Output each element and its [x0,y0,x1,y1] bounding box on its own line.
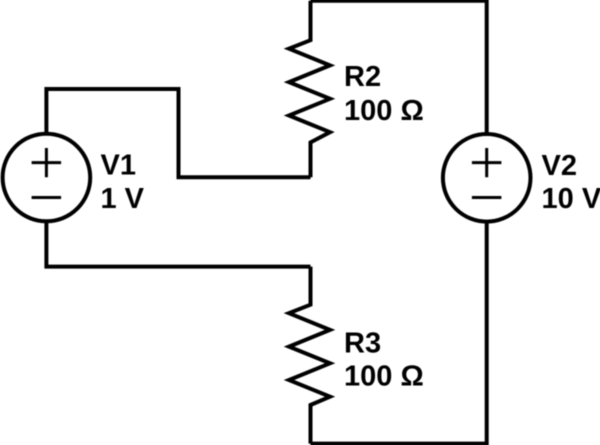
wire top net: R2 top to V2 top [311,1,487,136]
svg-text:V1: V1 [101,150,136,182]
wire bottom net: R3 bottom to V2 bottom [311,222,487,444]
svg-text:100 Ω: 100 Ω [344,360,424,392]
V1 minus sign [32,196,61,199]
svg-text:100 Ω: 100 Ω [344,95,424,127]
V2 plus sign [472,148,502,177]
voltage source V1 [3,134,91,222]
wire V1.+ to R2 bottom [46,89,310,177]
resistor R3 [289,267,330,444]
resistor R2 [289,1,330,177]
svg-text:R2: R2 [344,61,381,93]
svg-text:V2: V2 [542,150,577,182]
V2 minus sign [472,196,502,199]
svg-text:10 V: 10 V [542,183,600,215]
V1 plus sign [32,148,61,177]
wire V1.- to R3 top [46,222,310,267]
svg-text:1 V: 1 V [101,183,145,215]
svg-text:R3: R3 [344,328,381,360]
voltage source V2 [443,134,531,222]
